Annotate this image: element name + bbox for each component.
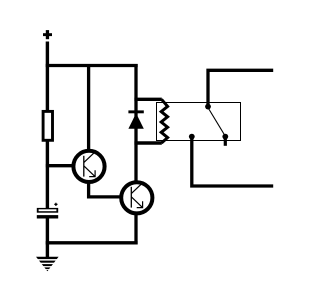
transistor Q2	[121, 182, 152, 213]
wire Q1 base	[46, 164, 74, 167]
wire bottom rail	[46, 241, 138, 244]
relay armature diagonal	[209, 109, 225, 135]
transistor Q1	[73, 151, 104, 182]
relay K1 coil	[161, 99, 167, 143]
relay contact right stub	[224, 137, 227, 146]
wire diode branch vertical	[134, 64, 137, 181]
ground	[34, 257, 62, 272]
wire top rail	[46, 64, 138, 67]
wire relay common up and right output	[208, 70, 273, 106]
relay contact common node	[205, 104, 211, 110]
capacitor C1	[37, 203, 58, 219]
wire Q1 collector drop	[87, 64, 90, 151]
wire relay NO contact down and right output	[192, 137, 273, 186]
wire coil bracket bottom	[134, 141, 161, 144]
wire capacitor to ground	[46, 219, 49, 259]
relay K1 box	[157, 103, 241, 141]
power +V terminal	[43, 30, 52, 39]
relay contact right node	[222, 134, 228, 140]
resistor R1	[43, 111, 52, 140]
relay contact left node	[189, 134, 195, 140]
wire left vertical resistor to capacitor	[46, 141, 49, 210]
wire supply vertical to resistor	[46, 42, 49, 113]
wire Q1 emitter to Q2 base	[89, 182, 122, 197]
diode D1	[128, 110, 143, 128]
wire Q2 emitter drop	[134, 214, 137, 245]
wire coil bracket top	[134, 98, 161, 101]
